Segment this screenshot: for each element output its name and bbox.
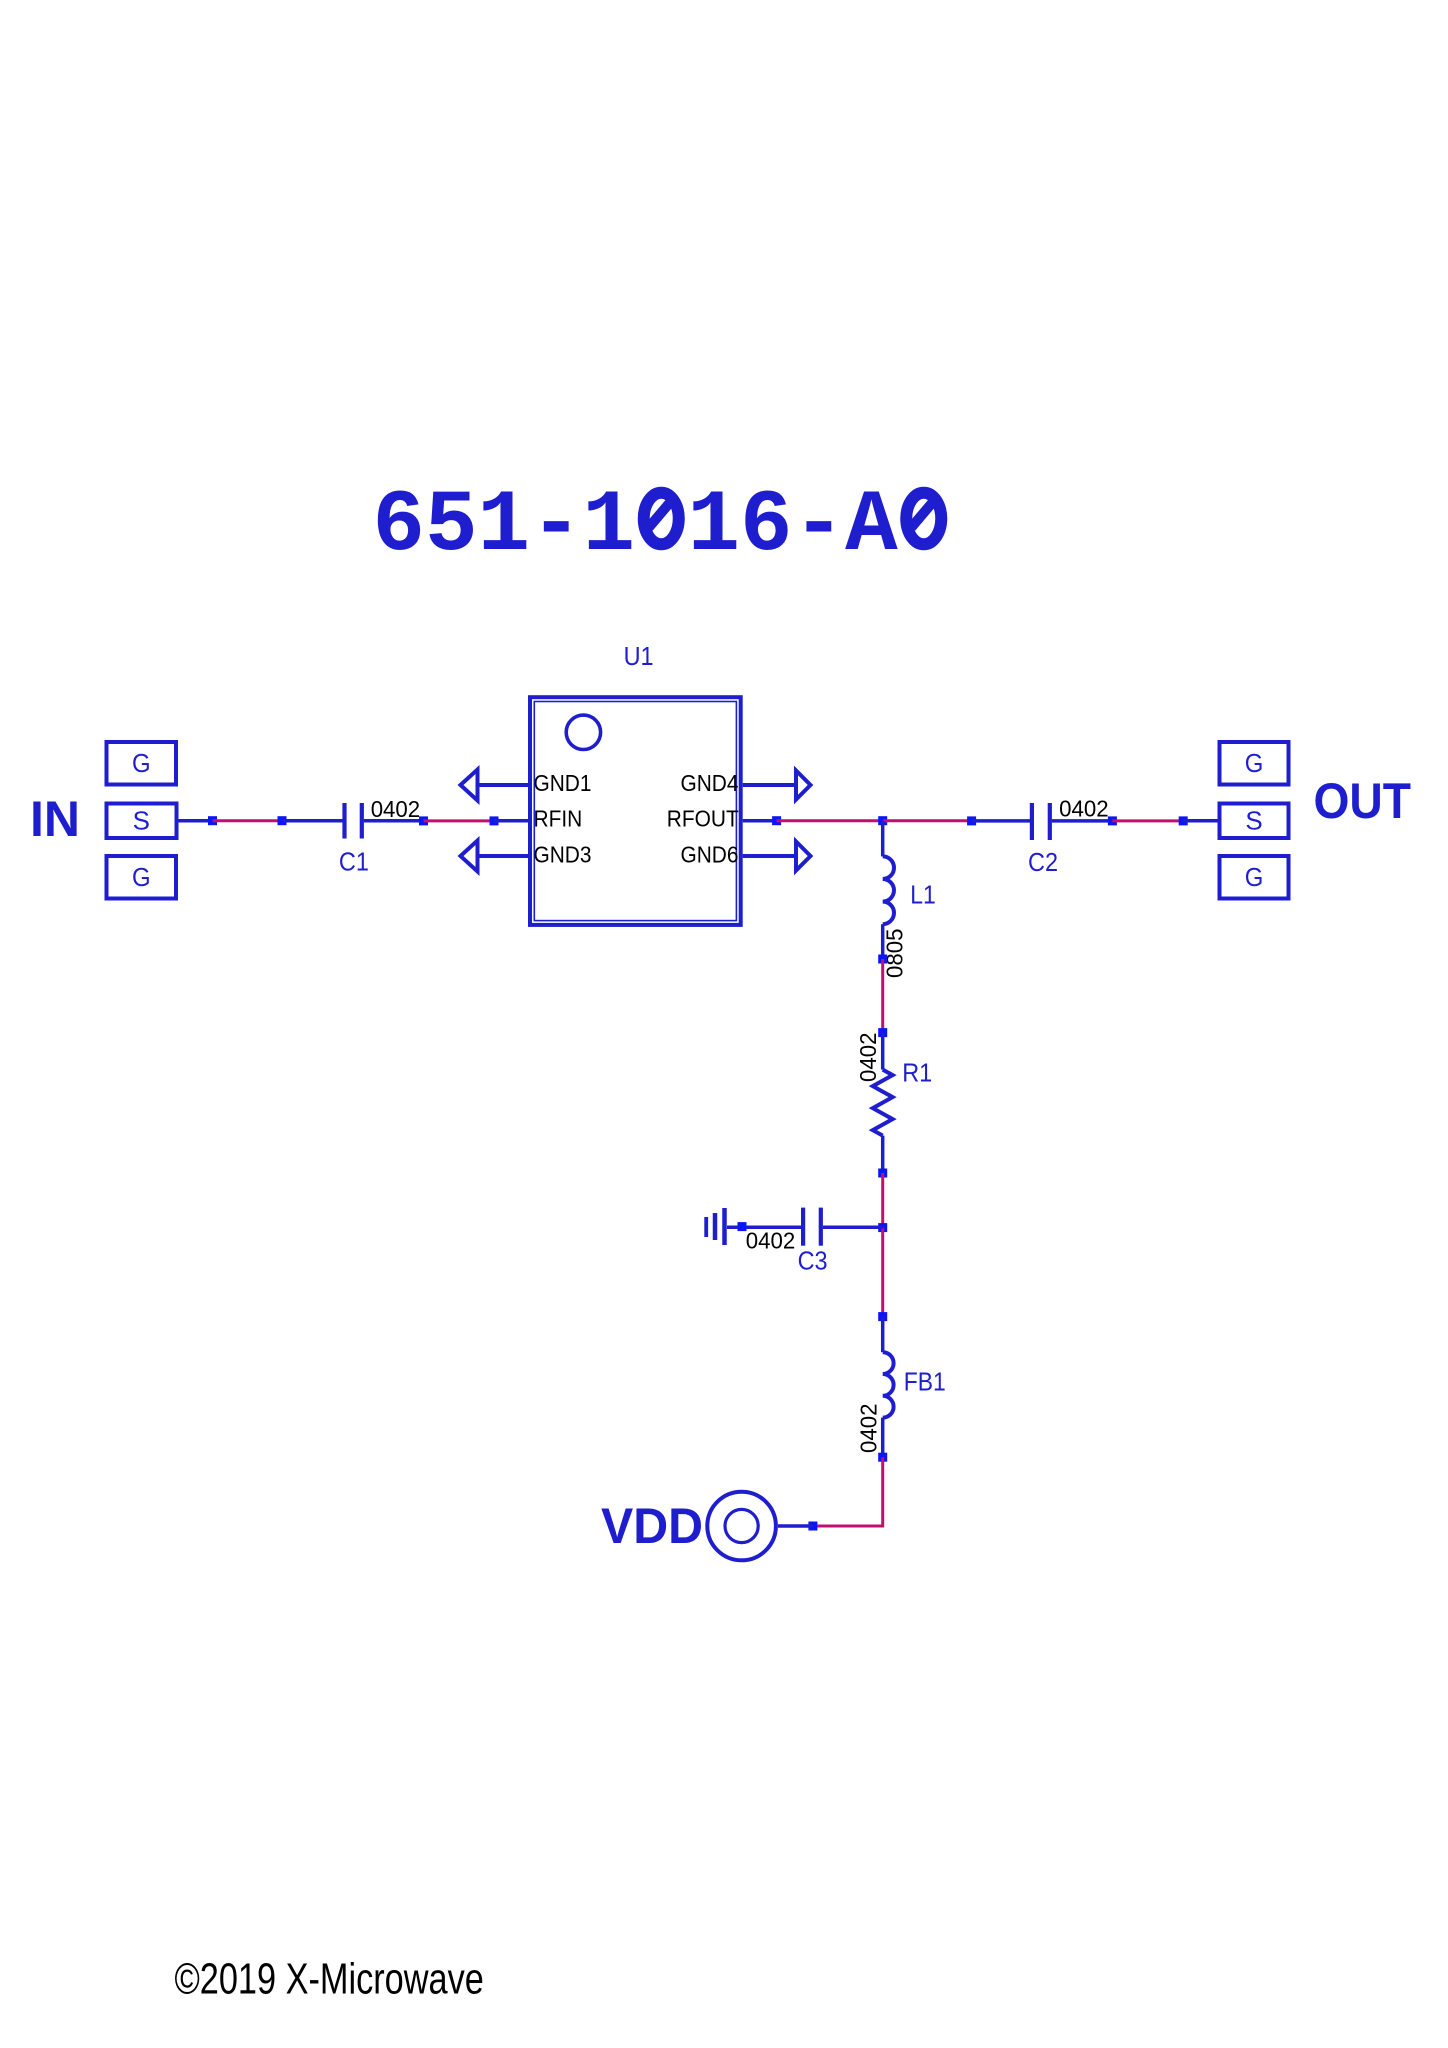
svg-text:S: S [1245, 806, 1262, 836]
IN pad G bottom [107, 856, 177, 899]
svg-text:G: G [132, 748, 151, 778]
resistor R1 [873, 1033, 893, 1173]
GND4 arrow [743, 771, 811, 800]
svg-text:0402: 0402 [1059, 796, 1109, 822]
svg-text:OUT: OUT [1314, 773, 1412, 829]
OUT pad G bottom [1220, 856, 1289, 899]
wire L1 to junction [881, 924, 885, 959]
svg-text:GND3: GND3 [534, 841, 592, 867]
svg-text:G: G [1245, 748, 1264, 778]
junction J15 [878, 1453, 887, 1462]
junction J12 [878, 1169, 887, 1178]
wire to C1 [282, 819, 344, 823]
wire IN S pad to junction [179, 819, 213, 823]
svg-text:RFOUT: RFOUT [667, 806, 739, 832]
junction J3 [419, 816, 428, 825]
wire C1 to junction [364, 819, 424, 823]
wire pink segment [424, 819, 495, 822]
svg-text:G: G [1245, 862, 1264, 892]
pin 1 indicator circle [566, 715, 600, 749]
GND3 arrow [461, 841, 529, 872]
wire pink segment L1 to R1 [881, 959, 884, 1033]
IC U1 [530, 697, 741, 925]
wire pink segment C3 node to FB1 [881, 1228, 884, 1317]
junction J4 [490, 816, 499, 825]
svg-text:U1: U1 [624, 641, 654, 671]
svg-text:0402: 0402 [855, 1033, 881, 1083]
junction J6 node RFOUT rail [878, 816, 887, 825]
junction J16 [808, 1522, 817, 1531]
wire pink segment R1 to C3 node [881, 1173, 884, 1228]
junction J14 FB1 top [878, 1312, 887, 1321]
wire rail down from J6 [881, 821, 885, 857]
junction J7 [967, 816, 976, 825]
svg-text:0402: 0402 [856, 1404, 882, 1454]
svg-text:GND1: GND1 [534, 770, 592, 796]
svg-text:0402: 0402 [746, 1228, 796, 1254]
wire C3 to ground [727, 1226, 801, 1230]
inductor L1 [883, 856, 894, 924]
svg-text:0402: 0402 [371, 796, 421, 822]
svg-text:R1: R1 [902, 1058, 932, 1088]
wire C3 node to C3 plate [823, 1226, 883, 1230]
GND1 arrow [461, 770, 529, 801]
junction J2 [278, 816, 287, 825]
VDD connector [707, 1492, 776, 1561]
svg-text:S: S [133, 806, 150, 836]
junction J9 [1179, 816, 1188, 825]
svg-text:0805: 0805 [882, 929, 908, 979]
svg-text:C3: C3 [798, 1246, 828, 1276]
svg-text:L1: L1 [910, 880, 936, 910]
title 651-1016-A0 [373, 477, 951, 576]
wire pink segment to C2 [883, 819, 972, 822]
svg-text:C1: C1 [339, 847, 369, 877]
wire C2 to junction [1052, 819, 1113, 823]
junction J8 [1108, 816, 1117, 825]
wire to RFIN [494, 819, 529, 823]
GND6 arrow [743, 842, 811, 871]
wire pink segment FB1 to VDD [817, 1457, 882, 1526]
wire pink segment OUT [1112, 819, 1183, 822]
svg-text:GND4: GND4 [681, 770, 739, 796]
IN pad S [107, 804, 177, 839]
svg-text:C2: C2 [1028, 847, 1058, 877]
capacitor C1 [345, 803, 362, 839]
svg-text:IN: IN [30, 791, 80, 847]
junction J5 [772, 816, 781, 825]
wire to OUT S pad [1183, 819, 1217, 823]
capacitor C2 [1032, 803, 1050, 840]
IN pad G top [107, 742, 177, 785]
junction J13 node C3 tap [878, 1223, 887, 1232]
svg-text:GND6: GND6 [681, 841, 739, 867]
svg-text:VDD: VDD [601, 1498, 703, 1554]
wire to C2 [972, 819, 1031, 823]
OUT pad G top [1220, 742, 1289, 785]
svg-text:RFIN: RFIN [534, 806, 583, 832]
svg-text:FB1: FB1 [904, 1367, 946, 1397]
junction J10 [878, 955, 887, 964]
ground [706, 1208, 724, 1245]
wire pink segment [213, 819, 283, 822]
junction J11 [878, 1028, 887, 1037]
wire RFOUT to junction [743, 819, 777, 823]
wire pink segment RFOUT [777, 819, 883, 822]
wire VDD connector to junction [778, 1524, 813, 1528]
junction J1 [208, 816, 217, 825]
capacitor C3 [803, 1208, 821, 1246]
ferrite bead FB1 [883, 1317, 894, 1458]
copyright [175, 1954, 484, 2003]
OUT pad S [1220, 804, 1289, 839]
junction J17 [738, 1222, 747, 1231]
svg-text:G: G [132, 862, 151, 892]
svg-text:©2019 X-Microwave: ©2019 X-Microwave [175, 1954, 484, 2003]
